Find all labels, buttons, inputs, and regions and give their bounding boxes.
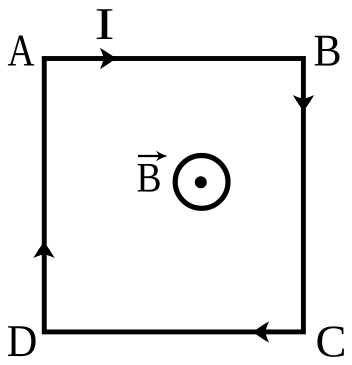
vector arrow over B (138, 155, 163, 157)
label I (current) (97, 9, 113, 39)
field symbol: center dot (195, 176, 207, 188)
label D (corner) (8, 326, 36, 356)
current arrow on wire DA (upward) (33, 242, 54, 258)
label B (corner) (315, 36, 340, 66)
label B (field vector letter) (138, 164, 160, 192)
label C (corner) (317, 326, 344, 357)
current arrow on wire BC (downward) (293, 95, 314, 111)
field symbol: circle (B out of page) (175, 156, 228, 209)
wire loop ABCD (square) (44, 59, 303, 332)
label A (corner) (8, 36, 34, 66)
current arrow on wire CD (leftward) (253, 321, 269, 342)
current arrow on wire AB (rightward) (100, 48, 116, 69)
